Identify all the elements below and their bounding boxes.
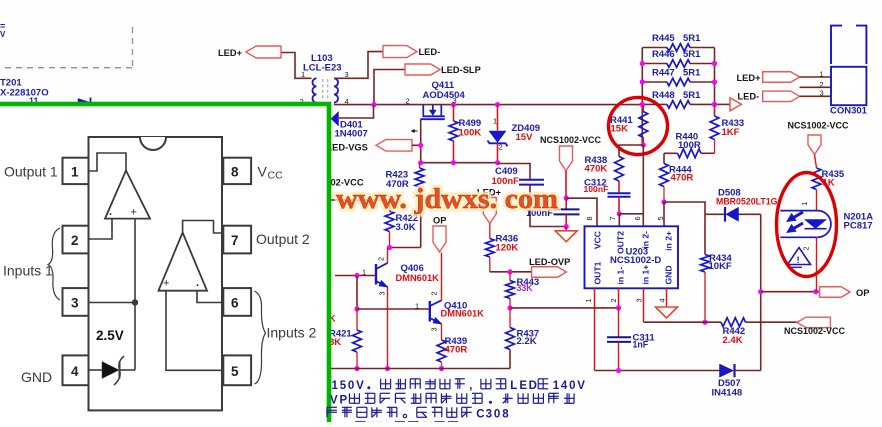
resistor R439 [441,324,443,340]
svg-text:L: L [510,380,517,392]
wire op-amp B noninv input to pin5 [166,291,223,371]
dashed boundary line [5,27,134,68]
svg-text:MBR0520LT1G: MBR0520LT1G [716,197,778,207]
pin box 4 left [63,355,89,385]
svg-text:470R: 470R [445,344,468,355]
wire op-amp B inv input to pin6 [197,291,223,303]
zener diode ZD409 [497,105,499,131]
resistor R421 [356,309,358,330]
svg-text:5: 5 [231,364,239,379]
opto LED arrows [794,212,803,217]
port NCS1002-VCC bottom right [797,317,830,328]
svg-text:LED-: LED- [419,47,441,57]
svg-text:2: 2 [377,257,386,261]
svg-text:7: 7 [231,233,239,248]
svg-text:Inputs 2: Inputs 2 [267,325,317,341]
svg-text:2: 2 [406,97,410,106]
svg-text:E: E [519,380,527,392]
op-amp U203 NCS1002-D box [585,226,679,288]
pin box 7 right [223,226,251,254]
svg-text:3: 3 [453,96,457,105]
svg-text:NCS1002-VCC: NCS1002-VCC [788,121,850,131]
wire OP net horizontal [761,291,820,293]
wire base rail down to Q410 [356,276,358,310]
svg-text:in 1-: in 1- [616,267,626,285]
pin box 2 left [63,226,89,254]
svg-text:LED-VGS: LED-VGS [327,142,368,152]
svg-text:6: 6 [633,216,642,220]
svg-text:OP: OP [856,288,869,298]
wire op-amp A noninv input down [134,219,136,370]
svg-text:5R1: 5R1 [683,33,701,44]
wire L103 pin3 to LED- port [334,52,383,79]
connector CON301 wires [800,76,831,78]
capacitor C310 [565,198,567,209]
svg-text:15V: 15V [516,132,534,143]
resistor R448 5R1 [642,103,667,105]
bottom left rail [331,368,510,370]
wire R444 junction to D508 column [664,202,705,255]
pin box 3 left [63,288,89,316]
svg-text:1: 1 [802,202,809,206]
svg-text:1: 1 [301,70,305,79]
wire pin3 to junction [89,302,136,304]
port LED- top [383,46,417,58]
svg-text:CC: CC [268,170,284,182]
IC notch [140,137,166,150]
wire C409 bottom to gnd rail [530,185,566,227]
svg-text:.: . [109,206,112,218]
svg-text:V: V [577,380,585,392]
wire pin1 to op-amp A output [89,153,127,171]
svg-text:0: 0 [348,380,354,392]
svg-text:5: 5 [340,380,347,392]
svg-text:R447: R447 [652,68,675,79]
svg-text:1: 1 [584,298,593,302]
wire NCS VCC rail to R422 [331,200,390,211]
svg-text:3: 3 [71,295,79,310]
svg-text:Inputs 1: Inputs 1 [3,263,53,279]
svg-text:470R: 470R [671,173,694,184]
svg-text:3: 3 [635,298,644,302]
resistor R436 [489,224,491,239]
resistor R423 [419,163,421,168]
svg-text:3: 3 [820,89,824,98]
svg-text:4: 4 [71,364,79,379]
svg-text:100R: 100R [678,140,701,151]
svg-text:100K: 100K [459,127,482,138]
pin box 1 left [63,158,89,184]
svg-text:8: 8 [502,409,509,421]
wire pin3 to R442 rail [644,321,722,323]
diode D508 [705,213,725,215]
svg-text:2: 2 [71,233,79,248]
red highlight ellipse around opto [777,173,837,277]
wire C312 to U203 pin7 [618,197,620,214]
svg-text:5: 5 [656,216,665,220]
svg-text:0: 0 [494,409,500,421]
svg-text:+: + [163,278,169,290]
wire D507 up to OP net [760,292,762,371]
transistor Q410 [429,301,431,322]
IC body outline [89,137,223,410]
wire R423 bottom to collector junction [420,187,421,248]
svg-text:R446: R446 [652,49,675,60]
wire R441 junction down to U203 pin6 [642,145,644,226]
svg-text:.: . [196,277,199,289]
svg-text:1nF: 1nF [633,340,649,350]
inductor L103 windings [312,78,316,102]
wire mid rail y163 [421,162,498,164]
wire to C409 [498,164,531,180]
zener diode in IC [89,369,103,371]
svg-text:2: 2 [430,291,439,295]
port LED+ top [246,46,281,58]
svg-text:7: 7 [608,216,617,220]
svg-text:4: 4 [561,380,568,392]
svg-text:C: C [476,409,484,421]
svg-text:GND: GND [21,369,52,385]
resistor R441 [642,105,644,112]
svg-text:V: V [356,380,364,392]
wire Q406 emitter down [387,287,389,369]
svg-text:VCC: VCC [593,231,603,249]
svg-text:in 2-: in 2- [641,231,651,249]
svg-text:1N4007: 1N4007 [335,129,368,140]
resistor R446 5R1 [642,63,667,65]
wire C310 to ground [565,214,567,226]
svg-text:DMN601K: DMN601K [396,273,440,283]
svg-text:120K: 120K [496,243,519,254]
resistor R433 [714,104,716,116]
svg-text:1: 1 [362,268,366,277]
warning triangle symbol [788,248,811,265]
svg-text:2: 2 [820,80,824,89]
svg-text:8: 8 [585,216,594,220]
svg-text:+: + [131,207,137,219]
svg-text:3: 3 [378,291,387,295]
svg-text:470K: 470K [585,164,608,175]
resistor R499 [453,105,455,121]
resistor R444 [663,153,665,163]
ground symbol U203 pin4 [656,307,678,318]
port LED-SLP [405,64,440,75]
svg-text:CON301: CON301 [830,106,868,117]
wire to diode D401 [339,105,374,118]
chinese annotation line4 sliver [355,422,457,427]
svg-text:2.4K: 2.4K [723,335,743,346]
svg-text:in 1+: in 1+ [641,265,651,285]
svg-text:5R1: 5R1 [683,90,701,101]
Q411 gate arrow mark [412,130,418,132]
pin box 8 right [223,158,251,184]
red highlight circle around R441 [609,98,668,155]
svg-text:D: D [529,380,537,392]
svg-text:1: 1 [71,164,79,179]
svg-text:4: 4 [658,298,667,302]
svg-text:PC817: PC817 [844,220,873,231]
wire VCC port to C310 [565,171,567,198]
svg-text:1KF: 1KF [722,127,740,138]
svg-text:LCL-E23: LCL-E23 [303,63,342,74]
transistor Q411 MOSFET symbol [422,105,424,116]
svg-text:GND: GND [664,265,674,284]
svg-text:,: , [469,380,472,392]
transistor Q406 [375,264,377,285]
svg-text:R448: R448 [652,90,675,101]
svg-text:3: 3 [430,327,439,331]
wire LED-VGS to gate junction [412,144,421,146]
svg-text:LED-: LED- [738,92,760,102]
op-amp B triangle [159,233,208,291]
svg-text:1: 1 [820,70,824,79]
resistor R435 [815,155,817,169]
wire R441 junction to R438 [619,145,643,157]
svg-text:in 2+: in 2+ [664,231,674,251]
wire Q411 gate down to LED-VGS junction [420,119,422,163]
diode fragment above green border [78,99,89,106]
svg-text:3: 3 [486,409,492,421]
wire pin5 stub [663,202,665,226]
svg-text:LED-OVP: LED-OVP [529,257,570,267]
connector CON301 body [831,67,866,105]
chinese annotation line3 [327,406,337,408]
wire LED+ to L103 pin1 [281,53,312,79]
svg-text:NCS1002-VCC: NCS1002-VCC [784,326,846,336]
junction dot pin3 [132,299,138,305]
resistor R437 [509,308,511,328]
capacitor C312 [618,181,620,193]
wire to U203 pin8 [566,198,597,226]
svg-text:1: 1 [553,380,560,392]
svg-text:6: 6 [231,295,239,310]
wire op-amp B output to pin7 [183,221,224,234]
svg-text:15K: 15K [611,124,629,135]
wire D508 anode down to OP net [760,214,762,291]
wire pin7 junction to pin6 line [619,213,643,215]
svg-text:V: V [258,164,268,180]
resistor R434 [701,255,710,273]
ground symbol mid [565,227,567,231]
resistor R445 5R1 [642,47,667,49]
svg-text:NCS1002-D: NCS1002-D [610,255,661,266]
svg-text:LED-SLP: LED-SLP [441,65,481,75]
wire op-amp A inv input to pin2 [89,219,113,239]
resistor R422 [385,211,394,232]
svg-text:P: P [340,395,348,407]
resistor R447 5R1 [642,81,667,83]
svg-text:X-228107O: X-228107O [0,88,49,99]
svg-text:2: 2 [499,143,503,152]
svg-text:1: 1 [415,302,419,311]
svg-text:100nF: 100nF [584,184,609,194]
resistor ladder rails [641,48,643,146]
svg-text:V: V [330,395,338,407]
svg-text:0: 0 [569,380,575,392]
svg-text:5R1: 5R1 [683,49,701,60]
wire main top rail y105 [334,104,642,106]
capacitor C409 [519,179,544,181]
green inset panel [0,104,329,427]
svg-text:2: 2 [804,247,811,251]
svg-text:5R1: 5R1 [683,68,701,79]
svg-text:1: 1 [493,117,497,126]
svg-text:www. jdwxs. com: www. jdwxs. com [336,183,558,215]
diode D401 [331,112,339,127]
L103 core dashed lines [323,79,328,101]
wire OUT1 rail [595,370,720,372]
svg-text:10KF: 10KF [709,261,732,272]
resistor R443 [509,272,511,281]
red triangle marker [730,98,742,111]
svg-text:OUT1: OUT1 [593,261,603,284]
svg-text:IN4148: IN4148 [712,387,743,398]
pin box 6 right [223,288,251,316]
svg-text:NCS1002-VCC: NCS1002-VCC [540,135,602,145]
svg-text:2.2K: 2.2K [517,336,537,347]
wire R436 to LED-OVP junction [490,271,532,273]
svg-text:33K: 33K [517,283,534,293]
svg-text:AOD4504: AOD4504 [423,90,466,101]
wire ladder to marker triangle [715,103,731,105]
capacitor C311 [618,308,620,337]
optocoupler N201A PC817 [816,190,818,211]
svg-text:LED+: LED+ [218,48,243,58]
resistor R438 [615,157,624,182]
svg-text:1: 1 [332,380,339,392]
port LED-VGS [376,140,412,152]
svg-text:!: ! [797,255,800,266]
pin box 5 right [223,355,251,385]
svg-text:8: 8 [231,164,239,179]
wire R443 junction to U203 pin2 [510,307,619,309]
svg-text:2.5V: 2.5V [96,328,124,343]
U203 bottom stubs [594,288,596,370]
svg-text:Output 2: Output 2 [256,231,310,247]
svg-text:3.0K: 3.0K [396,222,416,233]
resistor R442 [721,318,746,327]
svg-text:Output 1: Output 1 [4,164,58,180]
svg-text:OUT2: OUT2 [616,231,626,254]
svg-text:LED+: LED+ [737,73,762,83]
svg-text:OP: OP [433,215,446,225]
op-amp A triangle [105,171,150,219]
svg-text:2: 2 [609,298,618,302]
resistor R440 [701,152,715,154]
junction dots on top rail [371,102,376,107]
opto pin2 wire [816,237,818,291]
svg-text:R445: R445 [652,33,675,44]
diode D507 [720,364,734,377]
wire LED-SLP branch [374,70,405,106]
port OP right [820,287,850,298]
svg-text:V: V [0,30,6,39]
svg-text:DMN601K: DMN601K [441,309,485,319]
ladder junction dots [640,61,645,66]
